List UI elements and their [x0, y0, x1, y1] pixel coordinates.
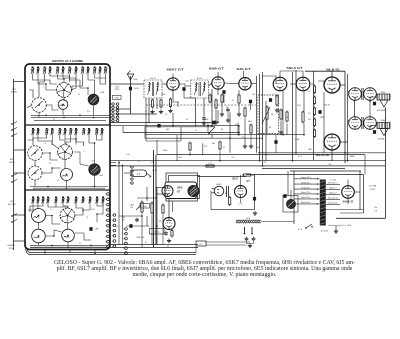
speaker 2 cone [380, 129, 388, 136]
capacitor on AVC bus 2 [212, 121, 215, 125]
wire 6SK7 top stub [172, 74, 174, 78]
svg-text:A.MIC: A.MIC [216, 183, 222, 186]
wire pot down [266, 121, 268, 134]
switch wafer contacts S1b [115, 103, 119, 122]
wire mic bottom [211, 209, 255, 211]
svg-text:T.r-16: T.r-16 [330, 179, 336, 182]
wire antenna feed into RF box [14, 81, 26, 83]
wire volume feed [146, 187, 148, 201]
junction [44, 252, 46, 254]
plug tip 1 [244, 233, 246, 235]
junction [238, 125, 240, 127]
wire pickup drop [287, 171, 289, 196]
terminal in 2 [11, 181, 13, 183]
wire s3 mesh i [75, 203, 90, 215]
terminal ant 1 [11, 123, 13, 125]
wire R34 down [162, 215, 164, 245]
wire bus y174 [246, 174, 364, 176]
wire s1 mesh a [33, 74, 57, 84]
svg-text:a 1,5K: a 1,5K [152, 170, 158, 172]
svg-text:ALRED: ALRED [11, 91, 18, 94]
junction [67, 246, 69, 248]
wire rail D [292, 72, 294, 161]
svg-text:a 5,6: a 5,6 [208, 163, 212, 165]
wire primary tap Bassa 100 v. [294, 203, 320, 205]
svg-text:50: 50 [116, 226, 118, 228]
wire bus y154 [157, 154, 365, 156]
ground R8 [168, 109, 172, 113]
wire s3 mesh l [46, 230, 62, 236]
wire loop outer 6E5 [166, 173, 198, 201]
switch blade [12, 122, 17, 125]
resistor bias R22 [313, 107, 315, 117]
junction [211, 125, 213, 127]
tuning coil S2-5 [58, 128, 62, 135]
wire 6L6 upper top stub [331, 71, 333, 77]
wire s1 bus 1 [31, 114, 109, 116]
capacitor C33 [129, 224, 132, 228]
svg-text:6E5: 6E5 [178, 185, 183, 189]
svg-text:6J5-GT: 6J5-GT [237, 67, 251, 71]
potentiometer arrow [262, 107, 270, 124]
tube V6a 6SL7 first triode [273, 77, 287, 91]
junction [259, 160, 261, 162]
RF box section divider 2 [25, 189, 110, 191]
wire TP to filter [206, 244, 247, 246]
svg-text:2200: 2200 [297, 105, 301, 107]
wire c3b down [38, 243, 40, 246]
wire strip stub 5 [14, 240, 26, 242]
wire 6SL7a cathode [282, 91, 284, 96]
resistor R8b [160, 99, 162, 109]
junction switch [311, 226, 313, 228]
wire R17b down [286, 124, 288, 135]
junction [94, 186, 96, 188]
svg-text:10: 10 [79, 243, 81, 245]
svg-text:6SL5 GT: 6SL5 GT [287, 66, 303, 70]
svg-text:A.T31: A.T31 [197, 77, 202, 80]
potentiometer R14 [266, 106, 268, 121]
wire 6SL7a drop [282, 96, 284, 135]
wire [195, 246, 197, 253]
tuning coil S3-5 [54, 197, 58, 204]
speaker 1 field coil [377, 94, 390, 100]
wire strip stub 4 [14, 214, 26, 216]
resistor R12 [238, 94, 240, 105]
wire s1 mesh e [100, 74, 106, 84]
wire s3 mesh f [28, 203, 33, 210]
OT1 core [361, 88, 363, 100]
padder C3b [32, 229, 46, 243]
ground line filter [248, 244, 252, 248]
svg-text:PHULL: PHULL [9, 162, 15, 164]
wire 6SL7a to 6SL7b [290, 83, 297, 85]
variable capacitor CV2 [58, 145, 73, 160]
oscillator padder L1a [32, 98, 47, 113]
tube V7 6L6 upper [324, 77, 340, 93]
wire s1 mesh f [50, 74, 70, 82]
wire AVC link3 [122, 126, 124, 133]
svg-text:CM3A TM: CM3A TM [7, 244, 15, 247]
junction [217, 122, 219, 124]
svg-text:6SJ7: 6SJ7 [232, 177, 238, 180]
tuning coil S1-7 [68, 67, 72, 75]
wire s2 mesh i [52, 135, 58, 149]
junction [292, 160, 294, 162]
switch arm AVC [209, 127, 215, 133]
wire rail F [347, 74, 349, 161]
tuning coil S1-5 [56, 67, 60, 75]
terminal [317, 203, 318, 204]
wire L2 down [94, 175, 96, 186]
wire 6J5 drop [238, 126, 240, 135]
speaker 1 cone [380, 100, 388, 107]
wire link y198 [137, 197, 157, 199]
junction [156, 225, 158, 227]
svg-text:ACT4 FR: ACT4 FR [8, 203, 16, 206]
tuning coil S1-9 [81, 67, 85, 75]
resistor R16 [280, 109, 282, 121]
junction [219, 160, 221, 162]
wire to OT1 [348, 91, 350, 94]
terminal in 3 [11, 215, 13, 217]
wire c3a-c3b [38, 223, 40, 230]
wire bus y168 [262, 168, 345, 170]
resistor bias R23 [313, 118, 315, 128]
junction [262, 165, 264, 167]
terminal [317, 198, 318, 199]
RF tuner unit enclosure box [25, 64, 110, 250]
wire s1 pad down [38, 112, 40, 117]
wire to L.T. [124, 172, 131, 174]
wire primary tap Origine 220 v. [294, 178, 320, 180]
wire drop x147b [146, 216, 148, 226]
phono pickup [286, 199, 295, 208]
wire primary tap media 140 v. [294, 188, 320, 190]
svg-text:250: 250 [264, 162, 267, 164]
junction [87, 87, 89, 89]
wire primary tap Bassa 110 v. [294, 198, 320, 200]
svg-text:6L6-G: 6L6-G [316, 153, 330, 157]
wire AVC bus 4 [145, 137, 263, 139]
IF transformer T1 [144, 80, 162, 98]
svg-text:GT: GT [177, 190, 181, 194]
tuning coil S3-10 [88, 197, 92, 204]
wire C6 down [183, 91, 185, 98]
switch wafer contacts S1a [111, 103, 115, 122]
svg-text:4.5962: 4.5962 [370, 189, 376, 191]
svg-text:22: 22 [86, 217, 88, 219]
wire 5U4 top stub [347, 180, 349, 186]
resistor bias R24 [313, 129, 315, 139]
tuning coil S1-8 [74, 67, 78, 75]
wire cv1 to trimmer [63, 97, 65, 101]
wire 6H6 top stub [217, 72, 219, 77]
svg-text:20: 20 [53, 119, 55, 121]
junction [148, 122, 150, 124]
wire s2 mesh g [65, 135, 76, 145]
resistor R34 [162, 204, 164, 215]
terminal [317, 193, 318, 194]
wire 6H6 arm down [211, 134, 213, 139]
wire s1 mesh m [46, 105, 58, 110]
wire s2 mesh d [97, 135, 102, 141]
wire strip stub 3 [14, 172, 26, 174]
output transformer OT2 primary [349, 117, 362, 130]
resistor R41 [219, 141, 221, 151]
tube V11 6E5 eye [162, 186, 173, 197]
tuning coil S3-6 [61, 197, 65, 204]
tuning coil S3-1 [31, 197, 35, 204]
resistor R9 [209, 94, 211, 104]
resistor bias R20 [313, 85, 315, 95]
wire rail B [259, 74, 261, 161]
tuning coil S3-3 [41, 197, 45, 204]
wire s1 mesh c [63, 74, 76, 84]
wire link y226 [126, 225, 150, 227]
padder C3a [32, 209, 46, 223]
capacitor s3 blob [89, 227, 92, 231]
wire R40 down [189, 152, 191, 155]
wire bottom bus 4 [26, 246, 197, 255]
wire s1 mesh d [88, 74, 95, 94]
wire s1 bus 2 [31, 116, 109, 118]
wire 6J5 top stub [243, 71, 245, 78]
wire link y216 [119, 215, 142, 217]
svg-text:Bassa 100 v.: Bassa 100 v. [301, 202, 311, 204]
wire 6L6 plate upper [340, 84, 345, 86]
junction [75, 138, 77, 140]
wire right rail down [385, 108, 387, 219]
tube V4 6H6 [212, 77, 224, 89]
wire cv3 down [67, 223, 69, 229]
wire bus y171 [290, 170, 361, 172]
wire pickup up [290, 190, 292, 199]
capacitor C8 [226, 108, 230, 112]
svg-text:1700Ω 1 W: 1700Ω 1 W [136, 237, 145, 239]
pilot lamp L.T. box [131, 170, 147, 177]
wire 6E5 second lead [172, 201, 174, 212]
switch wafer contacts S4 [124, 228, 128, 255]
svg-text:Filamento puate 6,3 v + 4 S.A.: Filamento puate 6,3 v + 4 S.A. [329, 224, 352, 227]
junction [282, 134, 284, 136]
ground R12 [237, 112, 241, 116]
svg-text:6115F: 6115F [115, 89, 120, 91]
tuning coil S3-11 [95, 197, 99, 204]
tuning coil S1-10 [86, 67, 90, 75]
wire s1 mesh l [71, 74, 76, 90]
wire R13b down [250, 135, 252, 144]
svg-text:1 W: 1 W [121, 220, 124, 222]
switch blade [12, 214, 17, 217]
junction [238, 134, 240, 136]
junction [122, 165, 124, 167]
wire s3 mesh e [30, 203, 43, 212]
wire R41 down [219, 151, 221, 161]
svg-text:6,3v: 6,3v [126, 154, 129, 156]
wire s3 mesh m [75, 233, 91, 240]
resistor R11 [221, 94, 223, 104]
mains cord twisted pair 2 [236, 220, 261, 223]
svg-text:2x8MF: 2x8MF [350, 156, 355, 158]
wire 6H6 branch [223, 94, 225, 103]
wire 6J5 grid [238, 90, 240, 95]
svg-text:6L6-G: 6L6-G [326, 67, 340, 71]
resistor R17b [286, 111, 288, 123]
wire s2 mesh k [42, 153, 57, 160]
svg-text:0,1: 0,1 [232, 100, 234, 102]
wire 6SL7b top stub [302, 71, 304, 77]
svg-text:6H6-GT: 6H6-GT [209, 66, 224, 70]
tuning coil S2-7 [69, 128, 73, 135]
capacitor C12 [318, 110, 321, 114]
junction box TP [196, 241, 206, 246]
svg-text:30: 30 [78, 94, 80, 96]
wire s2 mesh c [76, 135, 84, 147]
wire loop under T1 [146, 98, 215, 127]
capacitor speaker 2 [373, 130, 376, 134]
junction switch [305, 227, 307, 229]
wire bias rail [313, 71, 315, 160]
capacitor C11 [274, 140, 277, 144]
svg-text:10000: 10000 [163, 150, 168, 152]
ground R15 [275, 108, 279, 112]
wire 6H6 to 6J5 [224, 82, 239, 85]
junction [344, 152, 346, 154]
resistor R7 [151, 99, 153, 109]
tuning coil S1-1 [31, 67, 35, 75]
tube V12 driver [163, 218, 175, 230]
tuning coil S3-8 [74, 197, 78, 204]
svg-text:25: 25 [49, 163, 51, 165]
wire 6H6 cathode stub [217, 89, 219, 95]
tuning coil S2-1 [31, 128, 35, 135]
wire AVC bus 2b [123, 132, 240, 134]
wire left drop 2 [122, 166, 124, 245]
ground R10 [214, 120, 218, 124]
capacitor C9 [249, 100, 252, 104]
svg-text:A.T31: A.T31 [150, 77, 155, 80]
wire bottom right return [336, 217, 386, 219]
svg-text:B+. 6: B+. 6 [298, 229, 302, 231]
tube V5 6J5 [239, 78, 251, 90]
junction [47, 186, 49, 188]
svg-text:GT: GT [246, 180, 250, 183]
tuning coil S1-4 [48, 67, 52, 75]
ground 6SJ7 [253, 211, 257, 215]
wire [246, 241, 248, 243]
wire secondary Anodica 1 [326, 188, 340, 190]
wire primary common up [293, 171, 295, 179]
wire 6SL7 top link [280, 70, 303, 72]
wire mic return [210, 191, 212, 210]
wire AVC bus 1 [110, 122, 215, 124]
resistor R8 [169, 98, 171, 109]
tube V10 6SJ7 [235, 186, 247, 198]
OT2 core [361, 117, 363, 129]
wire link x146 [145, 127, 147, 141]
output transformer OT1 secondary [364, 88, 377, 101]
svg-text:4.702: 4.702 [9, 248, 13, 250]
junction [79, 115, 81, 117]
junction [45, 83, 47, 85]
wire bus y152 [258, 152, 386, 154]
wire 6H6 diode load [211, 89, 213, 126]
svg-text:50V 4V: 50V 4V [324, 105, 330, 107]
wire strip stub 2 [14, 149, 26, 151]
tube V6b 6SL7 second triode [296, 77, 310, 91]
tuning coil S2-6 [63, 128, 67, 135]
wire 6J5 out [251, 83, 256, 85]
junction [265, 154, 267, 156]
tuning coil S1-12 [98, 67, 102, 75]
shielded coil L1 [88, 94, 99, 105]
wire T2 down [203, 98, 205, 116]
terminal in 4 [11, 221, 13, 223]
svg-text:Bassa 125 v.: Bassa 125 v. [301, 192, 311, 194]
wire cathode branch [173, 99, 178, 107]
svg-text:media 140 v.: media 140 v. [301, 187, 311, 189]
wire s1 mesh n [27, 105, 32, 108]
wire s2 mesh f [28, 135, 34, 141]
wire R17 down [303, 124, 305, 135]
wire rectifier rail 1 [359, 171, 361, 210]
wire 6SJ7 plate up [240, 175, 242, 186]
6E5 target anode [188, 186, 199, 197]
wire TP to plug area [206, 241, 250, 243]
resistor R15 [276, 95, 278, 107]
terminal [317, 183, 318, 184]
svg-text:C1a: C1a [374, 207, 377, 209]
wire primary tap Bassa 125 v. [294, 193, 320, 195]
ground R7 [150, 110, 154, 114]
mains switch [306, 224, 312, 228]
wire C9 [250, 104, 252, 111]
wire to 6SL7a grid [263, 76, 277, 84]
junction [51, 167, 53, 169]
microphone jack [214, 186, 224, 196]
capacitor pickup [283, 194, 286, 198]
junction [96, 213, 98, 215]
caption text [5, 260, 400, 278]
wire T1 secondary down [148, 98, 150, 123]
wire box out 2 [110, 164, 116, 166]
junction [66, 187, 68, 189]
wire bus y109 short [116, 108, 131, 110]
wire R16 down [280, 121, 282, 130]
wire s2 bus 1 [30, 186, 108, 188]
wire secondary Salt 250+250 v. [326, 203, 340, 205]
capacitor line filter C21 [252, 237, 256, 241]
wire s3 bus 1 [30, 244, 108, 246]
wire T2 drop [195, 123, 197, 127]
wire secondary Filamento 5 v. [326, 183, 340, 185]
wire secondary Anodica 2 [326, 193, 340, 195]
wire s2 mesh j [66, 135, 71, 145]
switch blade [12, 174, 17, 177]
svg-text:HF3: HF3 [10, 201, 13, 203]
switch contacts S5 [130, 166, 134, 184]
wire branch [275, 135, 277, 140]
wire trunk x153 [153, 150, 155, 247]
svg-text:a 25: a 25 [231, 157, 234, 159]
power transformer T-16 core [320, 180, 326, 226]
terminal [317, 178, 318, 179]
capacitor speaker 1 [373, 102, 376, 106]
wire s2 mesh l [42, 168, 60, 173]
terminal [317, 188, 318, 189]
terminal ant 3 [11, 135, 13, 137]
